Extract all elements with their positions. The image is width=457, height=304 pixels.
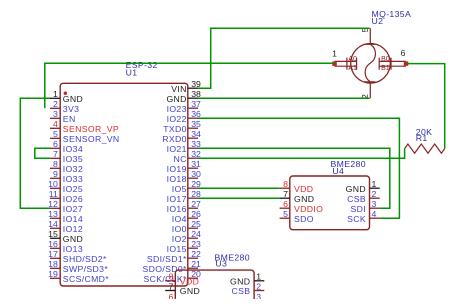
U1 pin 36 IO22 (right)	[167, 109, 201, 124]
U4 pin 6 VDDIO (left)	[280, 199, 324, 214]
svg-text:IO27: IO27	[63, 204, 83, 214]
svg-text:5: 5	[283, 209, 288, 219]
svg-text:SCK: SCK	[347, 214, 366, 224]
svg-text:1: 1	[53, 89, 58, 99]
U4 pin 3 SDI (right)	[350, 199, 379, 214]
U1 pin 18 SWP/SD3* (left)	[48, 259, 108, 274]
svg-text:26: 26	[191, 209, 201, 219]
svg-text:IO5: IO5	[172, 184, 187, 194]
U1 pin 32 NC (right)	[174, 149, 201, 164]
U1 pin 26 IO4 (right)	[172, 209, 201, 224]
svg-text:2: 2	[372, 189, 377, 199]
svg-text:1: 1	[332, 49, 337, 59]
svg-text:5: 5	[53, 129, 58, 139]
U1 pin 12 IO27 (left)	[48, 199, 83, 214]
U4 pin 7 GND (left)	[280, 189, 315, 204]
svg-text:9: 9	[53, 169, 58, 179]
label U3 BME280	[215, 253, 250, 269]
svg-text:22: 22	[191, 249, 201, 259]
U1 pin 31 IO19 (right)	[167, 159, 201, 174]
wire VIN: U1 pin39 to U2 pin5	[198, 28, 370, 88]
U1 pin 13 IO14 (left)	[48, 209, 83, 224]
U1 pin 10 IO25 (left)	[48, 179, 83, 194]
svg-text:SENSOR_VP: SENSOR_VP	[63, 124, 119, 134]
U1 pin 38 GND (right)	[166, 89, 201, 104]
svg-text:SCS/CMD*: SCS/CMD*	[63, 274, 110, 284]
svg-text:4: 4	[53, 119, 58, 129]
sensor U4 BME280 body	[290, 176, 370, 230]
U1 pin 33 IO21 (right)	[167, 139, 201, 154]
svg-text:IO18: IO18	[167, 174, 187, 184]
U1 pin 3 EN (left)	[50, 109, 76, 124]
svg-text:U4: U4	[332, 166, 344, 176]
svg-text:U2: U2	[372, 16, 384, 26]
U1 pin 8 IO32 (left)	[50, 159, 83, 174]
svg-text:VDD: VDD	[180, 277, 199, 287]
resistor R1 20K	[405, 144, 445, 153]
wire IO21: U1 pin33 to U4 SDI	[198, 148, 390, 208]
svg-text:IO0: IO0	[172, 224, 187, 234]
svg-text:IO22: IO22	[167, 114, 187, 124]
svg-text:16: 16	[48, 239, 58, 249]
U3 pin 3 SDI (right)	[235, 292, 264, 304]
wire IO17: U1 pin28 to U4 GND	[198, 197, 280, 199]
svg-text:11: 11	[49, 189, 58, 199]
svg-text:3: 3	[53, 109, 58, 119]
U3 pin 7 GND (left)	[165, 281, 200, 296]
svg-text:IO33: IO33	[63, 174, 83, 184]
svg-text:21: 21	[191, 259, 201, 269]
svg-text:SWP/SD3*: SWP/SD3*	[63, 264, 109, 274]
svg-text:30: 30	[191, 169, 201, 179]
svg-text:3: 3	[372, 199, 377, 209]
U1 pin 24 IO2 (right)	[172, 229, 201, 244]
U1 pin 20 SCK/CLK* (right)	[143, 269, 201, 284]
label U4 BME280	[331, 159, 366, 176]
U1 pin 17 SHD/SD2* (left)	[48, 249, 107, 264]
wire IO22: U1 pin36 to U4 SCK	[198, 118, 399, 218]
sensor U3 BME280 body	[175, 270, 254, 304]
svg-text:SDI: SDI	[350, 204, 366, 214]
svg-text:23: 23	[191, 239, 201, 249]
svg-text:GND: GND	[180, 286, 200, 296]
svg-text:4: 4	[372, 209, 377, 219]
U1 pin 35 TXD0 (right)	[163, 119, 201, 134]
wire IO34-IO35 loop U1 pins 6-7	[35, 148, 50, 158]
svg-text:A1: A1	[348, 65, 357, 72]
svg-text:SDI/SD1*: SDI/SD1*	[147, 254, 187, 264]
svg-text:RXD0: RXD0	[162, 134, 187, 144]
svg-text:IO12: IO12	[63, 224, 83, 234]
svg-text:13: 13	[48, 209, 58, 219]
svg-text:3: 3	[256, 292, 261, 299]
svg-text:GND: GND	[346, 184, 366, 194]
U1 pin 9 IO33 (left)	[50, 169, 83, 184]
svg-text:IO16: IO16	[167, 204, 187, 214]
svg-text:R1: R1	[416, 133, 428, 143]
svg-text:VDDIO: VDDIO	[294, 204, 323, 214]
svg-text:GND: GND	[63, 94, 83, 104]
U4 pin 2 CSB (right)	[347, 189, 380, 204]
svg-text:B0: B0	[381, 56, 390, 63]
svg-text:GND: GND	[166, 94, 186, 104]
svg-text:IO26: IO26	[63, 194, 83, 204]
U4 pin 8 VDD (left)	[280, 179, 314, 194]
U1 pin 39 VIN (right)	[171, 79, 201, 94]
svg-text:19: 19	[48, 269, 58, 279]
svg-text:IO35: IO35	[63, 154, 83, 164]
svg-text:IO32: IO32	[63, 164, 83, 174]
U1 pin 28 IO17 (right)	[167, 189, 201, 204]
svg-text:A0: A0	[348, 56, 357, 63]
svg-text:6: 6	[169, 292, 174, 299]
svg-text:2: 2	[256, 281, 261, 291]
U1 pin 29 IO5 (right)	[172, 179, 201, 194]
U4 pin 4 SCK (right)	[347, 209, 380, 224]
wire NC net: U1 pin32 to R1 left	[198, 149, 405, 159]
svg-text:18: 18	[48, 259, 58, 269]
svg-text:IO21: IO21	[167, 144, 187, 154]
U1 pin 27 IO16 (right)	[167, 199, 201, 214]
U1 pin 11 IO26 (left)	[49, 189, 83, 204]
gas sensor U2 MQ-135A body	[335, 28, 407, 98]
wire GND: U1 pin1 to U1 pin12	[20, 98, 50, 208]
svg-text:SDO: SDO	[294, 214, 314, 224]
svg-text:6: 6	[283, 199, 288, 209]
svg-text:34: 34	[191, 129, 201, 139]
svg-text:37: 37	[191, 99, 201, 109]
svg-text:IO25: IO25	[63, 184, 83, 194]
U1 pin 21 SDO/SD0* (right)	[142, 259, 201, 274]
svg-text:VDD: VDD	[294, 184, 313, 194]
U1 pin 34 RXD0 (right)	[162, 129, 201, 144]
svg-text:3V3: 3V3	[63, 104, 80, 114]
svg-text:CSB: CSB	[347, 194, 366, 204]
U1 pin 1 GND (left)	[50, 89, 83, 104]
svg-text:6: 6	[53, 139, 58, 149]
svg-text:GND: GND	[230, 277, 250, 287]
svg-text:35: 35	[191, 119, 201, 129]
U2 electrode labels A0 A1 B0 B1	[348, 56, 389, 72]
U3 pin 6 VDDIO (left)	[165, 292, 209, 304]
svg-text:8: 8	[283, 179, 288, 189]
U4 pin 1 GND (right)	[346, 179, 380, 194]
svg-text:VIN: VIN	[171, 84, 187, 94]
svg-text:14: 14	[48, 219, 58, 229]
U1 pin 5 SENSOR_VN (left)	[50, 129, 120, 144]
svg-text:U1: U1	[126, 68, 138, 78]
svg-text:IO19: IO19	[167, 164, 187, 174]
svg-text:IO2: IO2	[172, 234, 187, 244]
wire GND: U1 pin38 to U2 pin2	[198, 97, 370, 99]
U1 pin 6 IO34 (left)	[50, 139, 83, 154]
ESP-32 module U1 body	[60, 83, 188, 286]
U1 pin 15 GND (left)	[48, 229, 83, 244]
svg-text:U3: U3	[215, 259, 227, 269]
svg-text:TXD0: TXD0	[163, 124, 187, 134]
svg-text:24: 24	[191, 229, 201, 239]
label U1 ESP-32	[126, 60, 158, 78]
U2 pin numbers 1 6 5 2	[332, 27, 406, 99]
svg-text:IO17: IO17	[167, 194, 187, 204]
svg-text:17: 17	[48, 249, 58, 259]
svg-text:SDO/SD0*: SDO/SD0*	[142, 264, 187, 274]
svg-text:1: 1	[256, 272, 261, 282]
svg-text:CSB: CSB	[231, 286, 250, 296]
svg-text:GND: GND	[63, 234, 83, 244]
svg-text:NC: NC	[174, 154, 187, 164]
svg-text:27: 27	[191, 199, 201, 209]
U1 pin 30 IO18 (right)	[167, 169, 201, 184]
svg-text:IO14: IO14	[63, 214, 83, 224]
U1 pin 25 IO0 (right)	[172, 219, 201, 234]
U1 pin 23 IO15 (right)	[167, 239, 201, 254]
svg-text:GND: GND	[294, 194, 314, 204]
svg-text:IO23: IO23	[167, 104, 187, 114]
label R1 20K	[416, 127, 433, 143]
U2 pin junction squares	[332, 61, 408, 66]
U3 pin 2 CSB (right)	[231, 281, 264, 296]
U1 pin 16 IO13 (left)	[48, 239, 83, 254]
U4 pin 5 SDO (left)	[280, 209, 314, 224]
svg-text:SHD/SD2*: SHD/SD2*	[63, 254, 107, 264]
svg-text:6: 6	[401, 48, 406, 58]
U1 pin 14 IO12 (left)	[48, 219, 83, 234]
wire U2 pin6 to R1 right	[406, 64, 445, 149]
U3 pin 1 GND (right)	[230, 272, 264, 287]
label U2 MQ-135A	[372, 9, 412, 26]
svg-text:8: 8	[169, 272, 174, 282]
U1 pin 22 SDI/SD1* (right)	[147, 249, 201, 264]
svg-text:2: 2	[53, 99, 58, 109]
svg-text:15: 15	[48, 229, 58, 239]
svg-text:IO34: IO34	[63, 144, 83, 154]
svg-text:IO15: IO15	[167, 244, 187, 254]
svg-text:7: 7	[53, 149, 58, 159]
svg-text:31: 31	[191, 159, 201, 169]
U1 pin 37 IO23 (right)	[167, 99, 201, 114]
U1 pin 7 IO35 (left)	[50, 149, 83, 164]
svg-text:1: 1	[372, 179, 377, 189]
wire IO5: U1 pin29 to U4 VDD	[198, 187, 280, 189]
U1 pin 4 SENSOR_VP (left)	[50, 119, 119, 134]
svg-text:IO4: IO4	[172, 214, 187, 224]
svg-text:B1: B1	[381, 65, 390, 72]
U3 pin 8 VDD (left)	[165, 272, 199, 287]
U1 pin 19 SCS/CMD* (left)	[48, 269, 109, 284]
svg-text:IO13: IO13	[63, 244, 83, 254]
svg-text:25: 25	[191, 219, 201, 229]
svg-text:SENSOR_VN: SENSOR_VN	[63, 134, 120, 144]
svg-text:EN: EN	[63, 114, 76, 124]
svg-text:10: 10	[48, 179, 58, 189]
svg-text:8: 8	[53, 159, 58, 169]
U1 pin 2 3V3 (left)	[50, 99, 79, 114]
wire 3V3: U1 pin2 to U2 pin1	[45, 63, 335, 108]
svg-text:7: 7	[169, 281, 174, 291]
svg-text:7: 7	[283, 189, 288, 199]
